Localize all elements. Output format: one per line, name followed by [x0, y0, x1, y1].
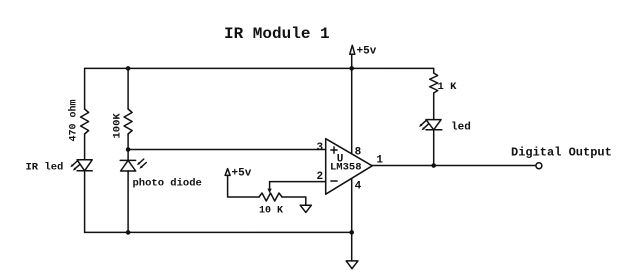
svg-text:LM358: LM358 [330, 162, 362, 174]
pin number 2 [317, 171, 324, 183]
ground (pot) [300, 205, 311, 212]
label U [337, 153, 344, 165]
svg-text:4: 4 [355, 180, 362, 192]
wire branch2 top [127, 68, 129, 109]
wire branch1 top [84, 68, 86, 109]
op-amp U1 LM358 [326, 139, 373, 195]
led (output) [419, 120, 442, 131]
+5v supply symbol (pot) [225, 169, 230, 176]
svg-text:+5v: +5v [357, 46, 377, 58]
node junction photo diode / pin3 wire [126, 147, 131, 152]
potentiometer wiper arrow [268, 182, 272, 194]
label Digital Output [511, 146, 612, 160]
potentiometer 10 K [259, 193, 282, 201]
wire pin 2 [270, 181, 326, 183]
svg-text:8: 8 [355, 146, 362, 158]
node junction top rail / +5v [349, 66, 354, 71]
wire resistor to photo diode [127, 134, 129, 160]
node junction top rail / branch2 [126, 66, 131, 71]
wire +5v to potentiometer [228, 175, 259, 197]
wire resistor to led [433, 93, 435, 120]
svg-text:10 K: 10 K [259, 206, 283, 217]
svg-text:Digital Output: Digital Output [511, 146, 612, 160]
pin number 1 [376, 155, 383, 167]
wire potentiometer to ground [282, 197, 306, 205]
resistor 1 K [430, 73, 438, 93]
resistor 470 ohm [81, 109, 89, 134]
node Digital Output terminal [536, 163, 542, 169]
label op-amp minus input [331, 180, 337, 182]
ground (bottom) [346, 261, 358, 269]
label +5v (top) [357, 46, 377, 58]
label +5v (pot) [232, 168, 252, 180]
svg-text:IR led: IR led [26, 162, 64, 174]
photo diode [120, 159, 146, 171]
wire resistor to IR led [84, 134, 86, 160]
IR led [70, 160, 92, 171]
resistor 100K [124, 109, 132, 134]
wire led to output [433, 130, 435, 166]
svg-text:3: 3 [317, 142, 324, 154]
label 1 K [438, 81, 458, 93]
label 470 ohm [68, 99, 80, 141]
svg-text:led: led [451, 122, 471, 134]
label LM358 [330, 162, 362, 174]
wire op-amp pin 4 to ground [351, 179, 353, 261]
title IR Module 1 [224, 25, 330, 43]
svg-text:1: 1 [376, 155, 383, 167]
wire +5v to top rail and down to op-amp pin 8 [351, 54, 353, 152]
node junction bottom rail / branch2 [126, 230, 131, 235]
node junction output / led branch [431, 163, 436, 168]
svg-text:+5v: +5v [232, 168, 252, 180]
wire right branch top [433, 68, 435, 73]
wire pin 3 [128, 149, 326, 151]
label 10 K [259, 206, 283, 217]
svg-text:2: 2 [317, 171, 324, 183]
pin number 4 [355, 180, 362, 192]
wire photo diode to bottom rail [127, 171, 129, 233]
wire op-amp output to terminal [372, 165, 536, 167]
svg-text:IR Module 1: IR Module 1 [224, 25, 330, 43]
svg-text:470 ohm: 470 ohm [68, 99, 80, 141]
wire top rail [85, 67, 434, 69]
svg-text:photo diode: photo diode [133, 178, 202, 190]
label photo diode [133, 178, 202, 190]
svg-text:100K: 100K [112, 113, 124, 139]
+5v supply symbol (top) [350, 45, 355, 54]
wire IR led to bottom rail [84, 171, 86, 233]
label led [451, 122, 471, 134]
svg-text:1 K: 1 K [438, 81, 458, 93]
pin number 3 [317, 142, 324, 154]
label IR led [26, 162, 64, 174]
pin number 8 [355, 146, 362, 158]
wire bottom rail [85, 231, 352, 233]
node junction bottom rail / ground [349, 230, 354, 235]
label op-amp plus input [331, 147, 337, 153]
label 100K [112, 113, 124, 139]
